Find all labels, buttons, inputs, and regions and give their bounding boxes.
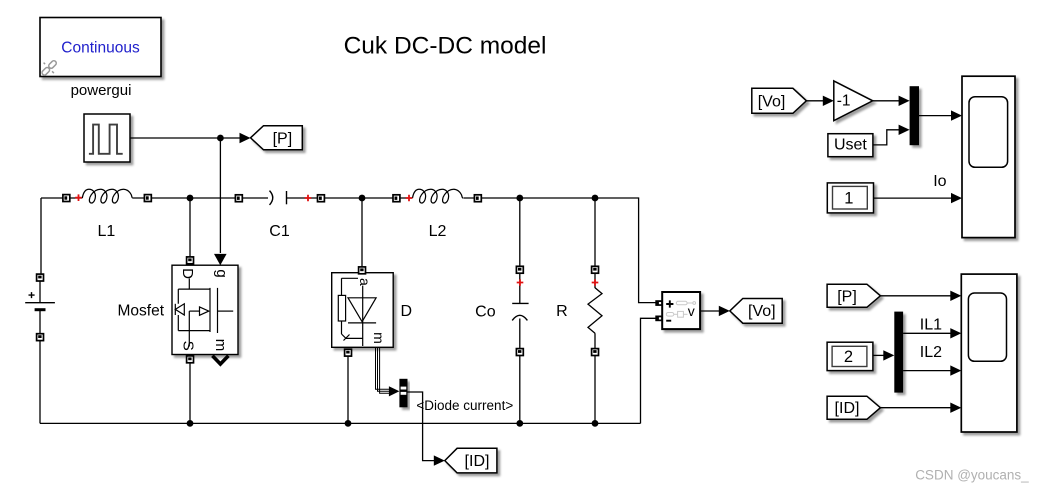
svg-text:2: 2	[844, 348, 853, 366]
svg-text:S: S	[179, 341, 196, 351]
svg-text:Io: Io	[933, 173, 946, 190]
svg-text:[P]: [P]	[273, 130, 293, 147]
svg-text:-1: -1	[837, 93, 851, 110]
svg-text:L2: L2	[429, 223, 447, 240]
svg-text:R: R	[556, 303, 568, 320]
svg-text:L1: L1	[98, 223, 116, 240]
svg-text:m: m	[212, 339, 229, 352]
svg-text:D: D	[179, 268, 196, 279]
svg-text:D: D	[401, 303, 413, 320]
svg-text:Uset: Uset	[834, 136, 867, 153]
svg-text:Co: Co	[475, 304, 496, 321]
svg-text:Cuk DC-DC model: Cuk DC-DC model	[344, 32, 547, 59]
svg-text:[P]: [P]	[837, 288, 857, 305]
svg-text:g: g	[213, 269, 230, 277]
svg-text:Mosfet: Mosfet	[117, 303, 164, 320]
svg-text:[ID]: [ID]	[835, 400, 860, 417]
svg-text:[Vo]: [Vo]	[748, 303, 776, 320]
svg-text:a: a	[357, 278, 373, 286]
svg-text:v: v	[688, 303, 695, 319]
svg-text:[ID]: [ID]	[465, 453, 490, 470]
svg-text:IL2: IL2	[920, 344, 942, 361]
svg-text:1: 1	[844, 189, 853, 207]
svg-text:<Diode current>: <Diode current>	[416, 398, 513, 413]
svg-text:C1: C1	[269, 223, 290, 240]
svg-text:IL1: IL1	[920, 317, 942, 334]
svg-text:powergui: powergui	[71, 82, 132, 99]
svg-text:Continuous: Continuous	[61, 40, 140, 57]
svg-text:[Vo]: [Vo]	[758, 93, 786, 110]
svg-text:CSDN @youcans_: CSDN @youcans_	[915, 467, 1029, 482]
svg-text:m: m	[371, 332, 387, 344]
